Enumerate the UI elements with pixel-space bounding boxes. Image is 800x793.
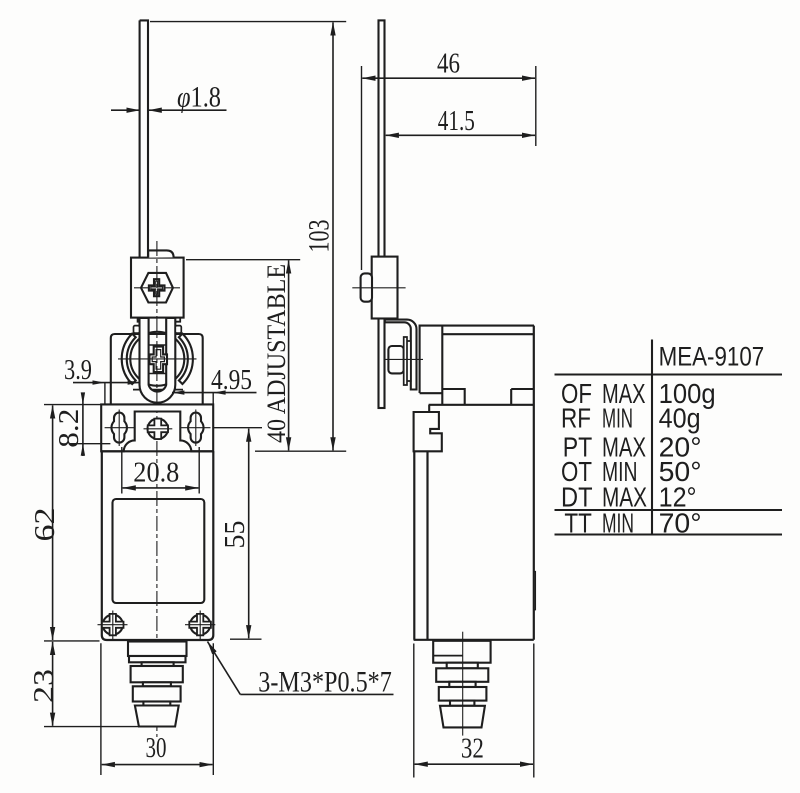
svg-text:23: 23 <box>28 669 60 703</box>
svg-text:MIN: MIN <box>602 403 633 434</box>
table line 2 <box>555 509 783 511</box>
svg-text:55: 55 <box>219 521 251 549</box>
leader 3-M3 underline <box>240 693 393 695</box>
svg-text:3-M3*P0.5*7: 3-M3*P0.5*7 <box>258 666 392 699</box>
side lower plate <box>414 412 442 451</box>
svg-text:40g: 40g <box>659 403 701 434</box>
head box (front view) <box>111 334 203 404</box>
side body right step <box>534 572 536 610</box>
ear center screw circle <box>148 419 168 439</box>
dimension 32 line <box>415 763 533 765</box>
side plunger box C <box>439 687 487 701</box>
plunger box C <box>131 666 183 682</box>
extension line 55 top <box>214 427 263 429</box>
clamp hex centerline <box>134 287 180 289</box>
bottom left screw cross <box>102 614 124 635</box>
dimension phi1.8 left line <box>111 109 140 111</box>
actuator rod (front view) <box>140 20 148 318</box>
roller circle <box>130 332 184 386</box>
side axle nut <box>388 346 403 373</box>
dimension 20.8 line <box>123 487 199 489</box>
side plunger box A inner line <box>433 655 462 657</box>
extension line top 40 ADJUSTABLE <box>186 259 300 261</box>
side plunger box B <box>436 668 488 682</box>
plunger box B <box>129 656 186 662</box>
dimension 8.2 arrows <box>81 392 85 455</box>
leader 3-M3 <box>208 642 241 695</box>
side plunger neck 2 <box>449 682 475 687</box>
svg-text:32: 32 <box>461 733 484 765</box>
dimension 40 ADJUSTABLE line <box>288 260 290 450</box>
dimension 46 line <box>362 77 535 79</box>
svg-text:62: 62 <box>29 508 61 542</box>
side plunger centerline <box>462 632 464 736</box>
svg-text:φ1.8: φ1.8 <box>177 81 221 114</box>
dimension 3.9 arrows <box>93 380 141 384</box>
dimension 62 line <box>52 405 54 640</box>
extension line top 103 <box>150 21 346 23</box>
plunger neck 3 <box>143 702 170 706</box>
dimension 4.95 ref line <box>212 393 214 404</box>
svg-text:MEA-9107: MEA-9107 <box>659 342 765 372</box>
left slot crosshair <box>105 410 135 447</box>
side plunger box A <box>433 641 490 663</box>
svg-text:4.95: 4.95 <box>211 364 252 396</box>
side plunger tip trapezoid <box>440 706 485 728</box>
roller plate lines <box>149 345 167 374</box>
dimension 4.95 line <box>172 392 257 394</box>
right ear slot <box>188 413 203 443</box>
dimension 8.2 line <box>82 393 84 456</box>
plunger neck 2 <box>143 682 171 686</box>
head top right clip <box>175 326 181 334</box>
svg-text:3.9: 3.9 <box>64 354 92 386</box>
clamp phillips cross inner <box>151 281 163 294</box>
roller seat line <box>133 389 183 391</box>
clamp block (front view) <box>131 258 184 318</box>
side plate connector <box>428 405 430 412</box>
roller right C-arc band <box>179 334 193 384</box>
bottom right screw <box>190 615 210 635</box>
svg-text:RF: RF <box>561 403 591 434</box>
wire U band <box>140 318 176 403</box>
bottom left screw <box>103 615 123 635</box>
table line 3 <box>555 533 783 535</box>
bottom right screw crosshair <box>185 611 215 640</box>
roller phillips cross inner <box>152 350 164 370</box>
right slot crosshair <box>181 410 211 447</box>
body (front view) <box>102 451 214 640</box>
roller left C-arc band <box>122 334 136 384</box>
mounting bracket flange <box>101 404 213 451</box>
dimension 23 line <box>52 642 54 726</box>
table vertical divider <box>651 340 653 535</box>
side plunger neck 1 <box>447 663 478 669</box>
extension line bottom 103 / 40ADJ <box>255 450 346 452</box>
svg-text:46: 46 <box>437 48 460 80</box>
svg-text:8.2: 8.2 <box>53 409 85 448</box>
extension lines 20.8 <box>122 447 199 494</box>
main vertical centerline <box>156 241 158 737</box>
side bracket band <box>385 320 417 390</box>
side head block <box>420 326 534 405</box>
extension lines 32 <box>414 644 534 778</box>
bottom left screw crosshair <box>98 611 128 640</box>
clamp bottom right tab <box>175 318 181 322</box>
dimension 3.9 ref line <box>104 383 106 404</box>
plunger box D <box>133 686 181 701</box>
extension line 62 bottom <box>44 640 100 642</box>
clamp top tab <box>148 250 173 257</box>
dimension 41.5 line <box>386 134 535 136</box>
svg-text:20.8: 20.8 <box>133 457 179 489</box>
dimension phi1.8 right line <box>149 109 227 111</box>
svg-text:TT: TT <box>564 508 592 539</box>
clamp phillips cross outer <box>149 279 165 296</box>
roller phillips cross outer <box>150 347 168 372</box>
plunger neck 1 <box>142 662 174 666</box>
extension line 62 top <box>44 404 101 406</box>
plunger tip trapezoid <box>135 706 179 727</box>
bottom right screw cross <box>189 614 211 635</box>
side plunger neck 3 <box>450 701 474 706</box>
ear screw cross <box>148 419 168 439</box>
svg-text:40 ADJUSTABLE: 40 ADJUSTABLE <box>262 264 291 443</box>
clamp bottom left tab <box>138 318 146 322</box>
extension line 8.2 bottom <box>70 443 110 445</box>
side clamp centerline <box>352 287 405 289</box>
svg-text:MIN: MIN <box>602 508 634 539</box>
clamp hex nut <box>141 273 173 303</box>
roller horizontal centerline <box>118 358 197 360</box>
side body top edge <box>429 404 534 406</box>
dimension 55 line <box>248 429 250 639</box>
side clamp block <box>372 257 398 319</box>
head top left clip <box>134 326 140 334</box>
dimension 3.9 line <box>73 382 140 384</box>
svg-text:103: 103 <box>303 220 336 253</box>
side axle centerline <box>384 358 423 360</box>
extension line 55 bottom <box>230 638 262 640</box>
side axle washers <box>404 337 411 385</box>
ear screw crosshair <box>144 428 173 430</box>
dimension 4.95 arrows <box>172 390 226 394</box>
extension line 23 bottom <box>44 726 139 728</box>
extension lines 30 <box>101 643 213 775</box>
plunger box A <box>128 642 187 657</box>
table line 1 <box>555 373 783 375</box>
svg-text:30: 30 <box>146 732 167 764</box>
body label plate <box>113 499 205 603</box>
dimension 103 line <box>332 22 334 450</box>
side clamp nut <box>361 273 372 301</box>
svg-text:70°: 70° <box>659 508 702 539</box>
side actuator rod <box>379 20 385 408</box>
extension line 46 left <box>361 66 363 270</box>
dimension 30 line <box>102 764 213 766</box>
svg-text:41.5: 41.5 <box>438 105 475 137</box>
side body <box>414 326 534 640</box>
extension line 46/41.5 right <box>535 66 537 146</box>
side head bottom <box>420 389 534 405</box>
left ear slot <box>111 413 126 443</box>
